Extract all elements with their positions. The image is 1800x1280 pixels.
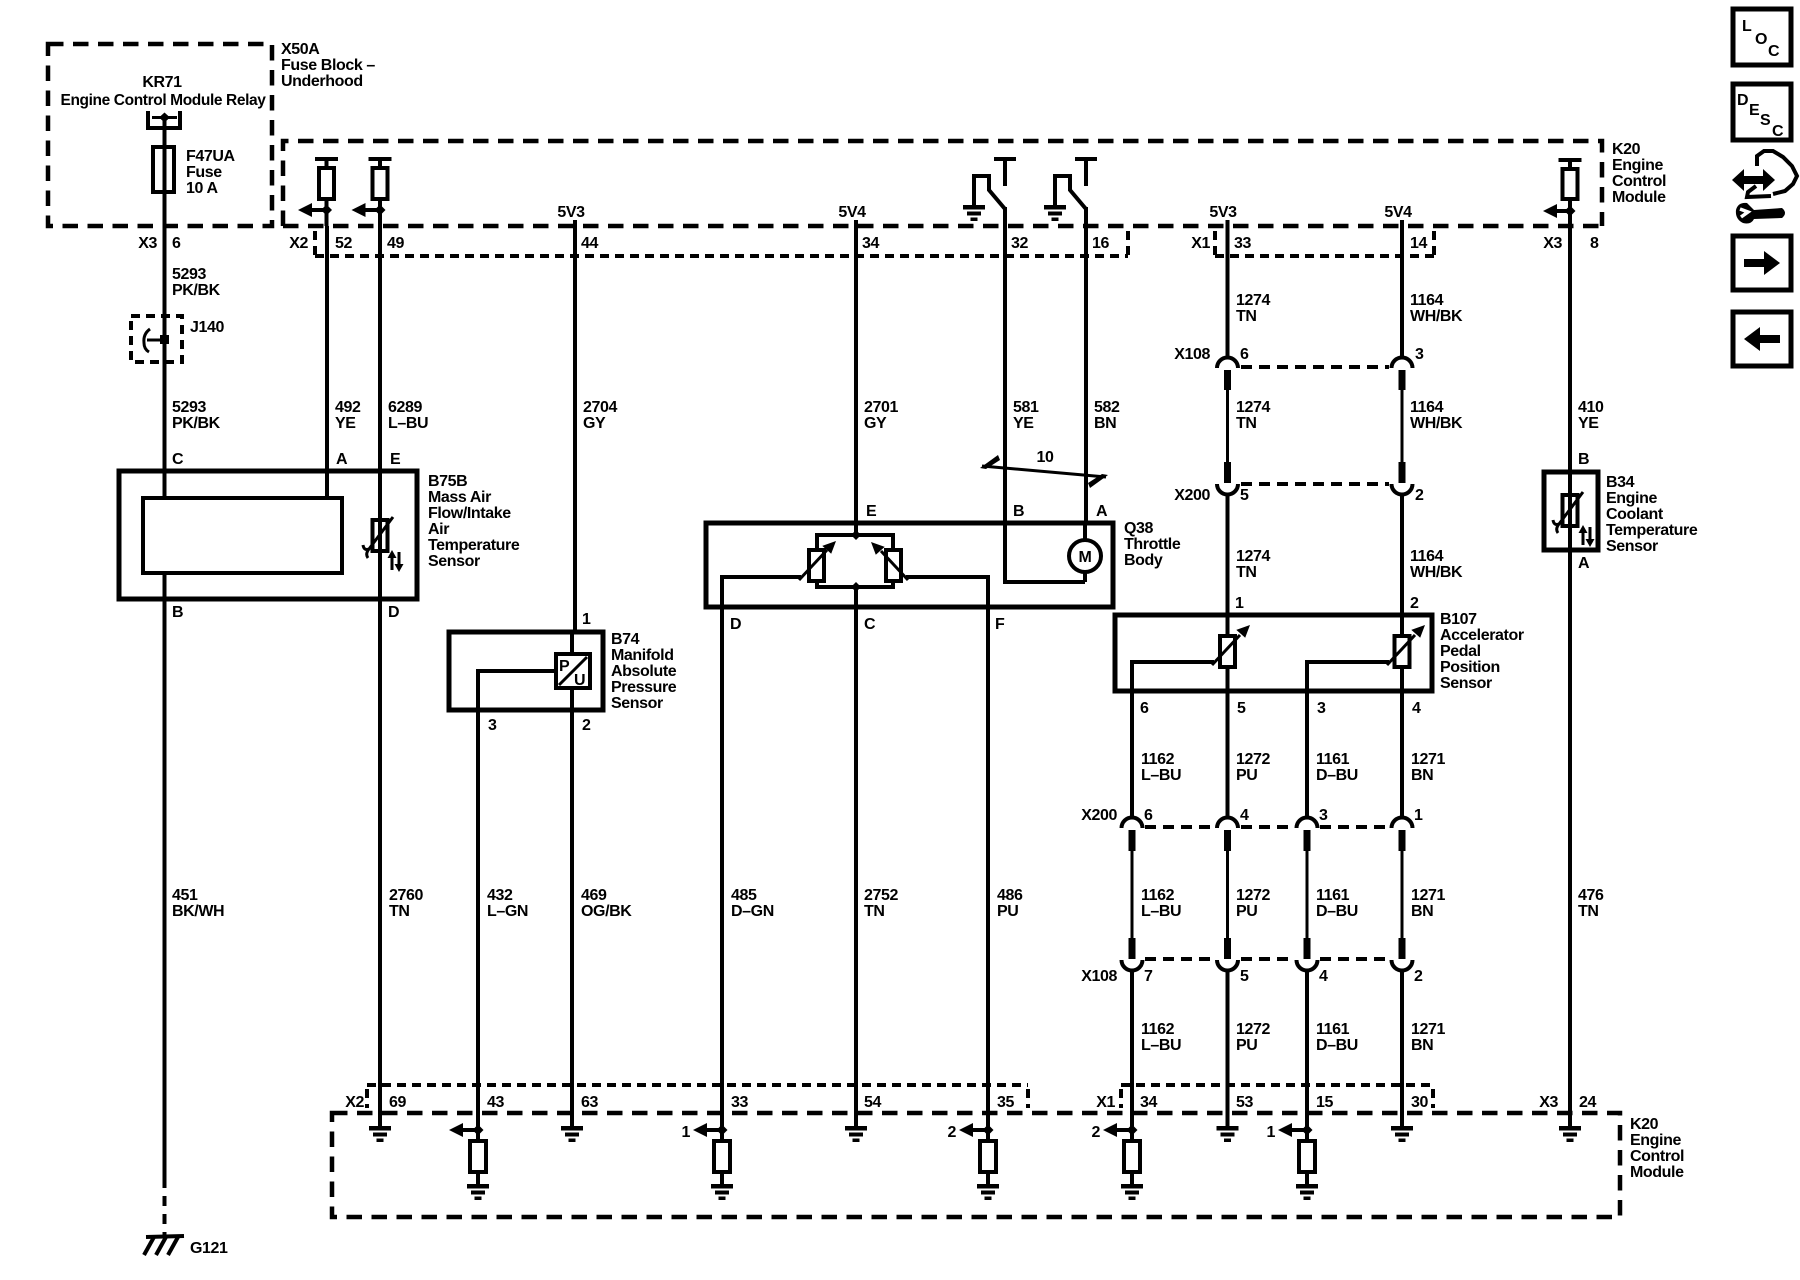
svg-text:L–BU: L–BU	[388, 415, 428, 432]
connector X108 pin 2 (lower)	[1392, 938, 1413, 1085]
svg-text:OG/BK: OG/BK	[581, 903, 632, 920]
svg-text:Fuse: Fuse	[186, 164, 222, 181]
svg-text:3: 3	[488, 717, 497, 734]
svg-text:Engine: Engine	[1606, 490, 1657, 507]
motor M	[1069, 523, 1101, 582]
wire 1271 BN (X200 to X108)	[1411, 887, 1445, 920]
svg-text:BN: BN	[1411, 1037, 1433, 1054]
TPS1 resistor	[809, 550, 824, 581]
svg-text:5V4: 5V4	[838, 204, 866, 221]
ECM ground pin 54	[845, 1085, 867, 1142]
svg-text:X2: X2	[289, 235, 308, 252]
svg-text:10: 10	[1037, 449, 1054, 466]
svg-text:D–BU: D–BU	[1316, 1037, 1358, 1054]
svg-text:A: A	[336, 451, 348, 468]
wire 1162 L-BU (X108 to pin 34)	[1141, 1021, 1181, 1054]
svg-text:32: 32	[1011, 235, 1028, 252]
svg-text:581: 581	[1013, 399, 1039, 416]
connector X200 row labels (upper)	[1174, 487, 1424, 504]
svg-text:E: E	[390, 451, 401, 468]
svg-text:Fuse Block –: Fuse Block –	[281, 57, 375, 74]
svg-text:4: 4	[1412, 700, 1421, 717]
svg-text:476: 476	[1578, 887, 1604, 904]
wire 1274 TN (X108 to X200)	[1236, 399, 1270, 432]
connector X108 pin 3 (upper)	[1392, 358, 1413, 463]
svg-text:GY: GY	[583, 415, 606, 432]
svg-text:2760: 2760	[389, 887, 423, 904]
wire 486 PU (F to pin 35)	[988, 607, 1023, 1085]
B107 pin labels below	[1140, 700, 1421, 717]
connector X200 pin 2 (upper)	[1392, 462, 1413, 615]
wire 1161 D-BU (X108 to pin 15)	[1316, 1021, 1358, 1054]
top connector X2 dotted strip	[315, 231, 1128, 256]
svg-text:BN: BN	[1411, 767, 1433, 784]
svg-text:D: D	[388, 604, 399, 621]
connector X108 pin 6 (upper)	[1217, 358, 1238, 463]
svg-text:C: C	[1772, 123, 1784, 140]
wire A into inner element	[325, 471, 329, 498]
svg-text:X50A: X50A	[281, 41, 320, 58]
svg-text:X108: X108	[1081, 968, 1117, 985]
svg-text:1164: 1164	[1410, 399, 1444, 416]
svg-text:1161: 1161	[1316, 887, 1350, 904]
nav icon DESC	[1733, 84, 1791, 140]
svg-text:Absolute: Absolute	[611, 663, 677, 680]
node 5V4 (pin 34)	[838, 204, 866, 226]
svg-text:L–BU: L–BU	[1141, 767, 1181, 784]
svg-text:Body: Body	[1124, 552, 1163, 569]
ECM pulldown pin 34	[1092, 1085, 1144, 1200]
svg-text:8: 8	[1590, 235, 1599, 252]
motor circuit B wire	[1005, 523, 1085, 582]
svg-text:451: 451	[172, 887, 198, 904]
inline dashes X108 upper	[1241, 365, 1389, 369]
svg-text:469: 469	[581, 887, 607, 904]
svg-text:1162: 1162	[1141, 751, 1175, 768]
svg-text:34: 34	[862, 235, 879, 252]
TPS2 wiper from F	[871, 542, 988, 607]
ground G121	[144, 1236, 228, 1257]
TPS bracket top (E)	[817, 523, 893, 550]
svg-text:Sensor: Sensor	[1606, 538, 1658, 555]
ECM internal resistor pin X3-8	[1543, 160, 1582, 226]
svg-text:4: 4	[1240, 807, 1249, 824]
ECM pulldown pin 15	[1267, 1085, 1319, 1200]
svg-text:PK/BK: PK/BK	[172, 415, 221, 432]
svg-text:52: 52	[335, 235, 352, 252]
ECM ground pin 69	[369, 1085, 391, 1142]
harness loop 10 arrow	[980, 449, 1108, 488]
wire 1164 WH/BK (X108 to X200)	[1410, 399, 1463, 432]
wire 581 YE (32 to Q38 B)	[1005, 226, 1039, 523]
node 5V3 (pin 33)	[1209, 204, 1237, 226]
node 5V3 (pin 44)	[557, 204, 585, 226]
svg-text:6: 6	[172, 235, 181, 252]
ECM K20 top dashed box	[283, 141, 1666, 226]
connector X200 pin 3 (lower)	[1297, 818, 1318, 938]
svg-text:485: 485	[731, 887, 757, 904]
sensor B74 MAP box	[449, 631, 677, 712]
svg-text:49: 49	[387, 235, 404, 252]
svg-text:BN: BN	[1094, 415, 1116, 432]
svg-text:2: 2	[1415, 487, 1424, 504]
svg-text:5: 5	[1237, 700, 1246, 717]
splice J140	[131, 316, 224, 362]
svg-text:Control: Control	[1630, 1148, 1684, 1165]
svg-text:L–BU: L–BU	[1141, 1037, 1181, 1054]
svg-text:E: E	[866, 503, 877, 520]
svg-text:63: 63	[581, 1094, 598, 1111]
svg-text:Engine: Engine	[1612, 157, 1663, 174]
svg-text:Throttle: Throttle	[1124, 536, 1181, 553]
svg-text:53: 53	[1236, 1094, 1253, 1111]
svg-text:X3: X3	[1543, 235, 1562, 252]
TPS bracket bottom (C)	[817, 581, 893, 607]
svg-text:1: 1	[1414, 807, 1423, 824]
svg-text:1: 1	[1235, 595, 1244, 612]
wire 2704 GY (44 to B74 1)	[575, 226, 617, 632]
svg-text:1274: 1274	[1236, 548, 1270, 565]
ECM K20 bottom dashed box	[332, 1113, 1684, 1217]
wire C into inner element	[163, 471, 167, 498]
svg-text:WH/BK: WH/BK	[1410, 308, 1463, 325]
connector X108 pin 4 (lower)	[1297, 938, 1318, 1085]
wire 432 L-GN (3 to pin 43)	[478, 710, 528, 1085]
svg-text:Temperature: Temperature	[428, 537, 520, 554]
svg-text:2: 2	[1410, 595, 1419, 612]
ECM pulldown pin 35	[948, 1085, 1000, 1200]
wire 485 D-GN (D to pin 33)	[722, 607, 774, 1085]
svg-text:5V3: 5V3	[1209, 204, 1237, 221]
top connector pin row labels	[289, 235, 1599, 252]
bottom pin row labels	[345, 1094, 1596, 1111]
svg-text:K20: K20	[1612, 141, 1641, 158]
svg-text:16: 16	[1092, 235, 1109, 252]
svg-text:1: 1	[582, 611, 591, 628]
wire 1272 PU (X200 to X108)	[1236, 887, 1270, 920]
svg-text:L: L	[1742, 18, 1752, 35]
bottom connector X1 dotted strip	[1121, 1085, 1433, 1108]
svg-text:TN: TN	[389, 903, 410, 920]
svg-text:KR71: KR71	[142, 74, 182, 91]
inline dashes X200 lower a	[1145, 825, 1214, 829]
svg-text:D–GN: D–GN	[731, 903, 774, 920]
svg-text:X1: X1	[1191, 235, 1210, 252]
wire 5293 PK/BK upper	[165, 192, 221, 316]
svg-text:Flow/Intake: Flow/Intake	[428, 505, 511, 522]
APP1 wiper from pin 6	[1132, 625, 1250, 691]
svg-text:1: 1	[1267, 1124, 1276, 1141]
svg-text:L–BU: L–BU	[1141, 903, 1181, 920]
svg-text:410: 410	[1578, 399, 1604, 416]
svg-text:PK/BK: PK/BK	[172, 282, 221, 299]
svg-text:WH/BK: WH/BK	[1410, 415, 1463, 432]
svg-text:5V4: 5V4	[1384, 204, 1412, 221]
connector X108 pin 7 (lower)	[1122, 938, 1143, 1085]
svg-text:X1: X1	[1096, 1094, 1115, 1111]
svg-text:1161: 1161	[1316, 751, 1350, 768]
inline dashes X200 lower c	[1320, 825, 1389, 829]
svg-text:O: O	[1755, 31, 1767, 48]
bottom connector X2 dotted strip	[367, 1085, 1028, 1108]
svg-text:Manifold: Manifold	[611, 647, 674, 664]
wire 451 BK/WH (B to G121)	[165, 599, 225, 1236]
throttle body Q38 box	[706, 520, 1181, 607]
svg-text:B34: B34	[1606, 474, 1635, 491]
svg-text:Pressure: Pressure	[611, 679, 677, 696]
wire 469 OG/BK (2 to pin 63)	[572, 710, 632, 1085]
svg-text:69: 69	[389, 1094, 406, 1111]
connector X200 pin 1 (lower)	[1392, 818, 1413, 938]
APP1 resistor	[1220, 615, 1235, 691]
svg-text:30: 30	[1411, 1094, 1428, 1111]
svg-text:Module: Module	[1630, 1164, 1684, 1181]
svg-text:15: 15	[1316, 1094, 1333, 1111]
svg-text:Control: Control	[1612, 173, 1666, 190]
APP2 resistor	[1395, 615, 1410, 691]
svg-text:Mass Air: Mass Air	[428, 489, 491, 506]
svg-text:PU: PU	[1236, 903, 1257, 920]
TPS1 wiper from D	[722, 541, 836, 607]
svg-text:2701: 2701	[864, 399, 898, 416]
svg-text:X108: X108	[1174, 346, 1210, 363]
svg-text:2: 2	[1414, 968, 1423, 985]
wire 1164 WH/BK (14 to X108)	[1402, 226, 1463, 358]
svg-text:1164: 1164	[1410, 292, 1444, 309]
connector X200 pin 6 (lower)	[1122, 818, 1143, 938]
svg-text:5V3: 5V3	[557, 204, 585, 221]
svg-text:L–GN: L–GN	[487, 903, 528, 920]
svg-text:A: A	[1096, 503, 1108, 520]
wire 582 BN (16 to Q38 A)	[1086, 226, 1120, 523]
svg-text:K20: K20	[1630, 1116, 1659, 1133]
ECM ground pin 24	[1559, 1085, 1581, 1142]
ECM internal driver pin 16	[1044, 159, 1097, 226]
wire 476 TN (A to pin 24)	[1570, 550, 1604, 1085]
svg-text:X200: X200	[1174, 487, 1210, 504]
inline dashes X108 lower a	[1145, 957, 1214, 961]
thermistor in B75B	[363, 517, 404, 572]
svg-text:14: 14	[1410, 235, 1427, 252]
svg-text:D: D	[730, 616, 741, 633]
connector X108 row labels (lower)	[1081, 968, 1423, 985]
svg-text:1271: 1271	[1411, 751, 1445, 768]
svg-text:TN: TN	[1236, 308, 1257, 325]
wire E through IAT	[378, 471, 382, 599]
svg-text:PU: PU	[1236, 767, 1257, 784]
wire 492 YE (52 to B75B A)	[327, 226, 361, 471]
ECM internal resistor pin 52	[298, 159, 338, 226]
svg-text:1274: 1274	[1236, 292, 1270, 309]
svg-text:2: 2	[1092, 1124, 1101, 1141]
svg-text:Position: Position	[1440, 659, 1500, 676]
relay KR71	[61, 74, 266, 128]
svg-text:1272: 1272	[1236, 1021, 1270, 1038]
svg-text:1271: 1271	[1411, 1021, 1445, 1038]
P/U symbol	[556, 632, 590, 689]
svg-text:G121: G121	[190, 1240, 228, 1257]
svg-text:43: 43	[487, 1094, 504, 1111]
svg-text:Air: Air	[428, 521, 449, 538]
connector X200 pin 4 (lower)	[1217, 818, 1238, 938]
svg-text:F47UA: F47UA	[186, 148, 236, 165]
node 5V4 (pin 14)	[1384, 204, 1412, 226]
svg-text:F: F	[995, 616, 1005, 633]
ECM internal resistor pin 49	[352, 159, 392, 226]
ECM ground pin 30	[1391, 1085, 1413, 1142]
nav icon LOC	[1733, 9, 1791, 65]
svg-text:A: A	[1578, 555, 1590, 572]
svg-text:33: 33	[731, 1094, 748, 1111]
svg-text:Engine Control Module Relay: Engine Control Module Relay	[61, 92, 266, 109]
TPS2 resistor	[886, 550, 901, 581]
svg-text:2704: 2704	[583, 399, 617, 416]
svg-text:M: M	[1079, 549, 1092, 566]
svg-text:X3: X3	[138, 235, 157, 252]
svg-text:Sensor: Sensor	[428, 553, 480, 570]
svg-text:1162: 1162	[1141, 1021, 1175, 1038]
svg-text:3: 3	[1415, 346, 1424, 363]
svg-text:Sensor: Sensor	[1440, 675, 1492, 692]
svg-text:492: 492	[335, 399, 361, 416]
wire 1162 L-BU (X200 to X108)	[1141, 887, 1181, 920]
svg-text:44: 44	[581, 235, 598, 252]
wire 6289 L-BU (49 to B75B E)	[380, 226, 428, 471]
svg-text:YE: YE	[1013, 415, 1034, 432]
sensor B107 APP box	[1115, 611, 1524, 692]
inline dashes X108 lower c	[1320, 957, 1389, 961]
svg-text:D: D	[1737, 92, 1748, 109]
inline dashes X200 upper	[1241, 482, 1389, 486]
svg-text:Q38: Q38	[1124, 520, 1154, 537]
svg-text:Temperature: Temperature	[1606, 522, 1698, 539]
wire 2760 TN (D to pin 69)	[380, 599, 423, 1085]
wire 1272 PU (5 to X200)	[1228, 691, 1271, 817]
label X50A Fuse Block - Underhood	[281, 41, 375, 90]
svg-text:BK/WH: BK/WH	[172, 903, 224, 920]
connector X108 row labels (upper)	[1174, 346, 1424, 363]
svg-text:PU: PU	[997, 903, 1018, 920]
svg-text:U: U	[574, 672, 585, 689]
svg-text:2: 2	[582, 717, 591, 734]
svg-text:2: 2	[948, 1124, 957, 1141]
svg-text:E: E	[1749, 102, 1760, 119]
svg-text:582: 582	[1094, 399, 1120, 416]
connector X200 pin 5 (upper)	[1217, 462, 1238, 615]
svg-text:X3: X3	[1539, 1094, 1558, 1111]
svg-text:5293: 5293	[172, 399, 206, 416]
fuse block X50A dashed box	[48, 44, 272, 226]
svg-text:D–BU: D–BU	[1316, 767, 1358, 784]
svg-text:S: S	[1760, 112, 1771, 129]
sensor B34 ECT box	[1544, 472, 1698, 555]
svg-text:7: 7	[1144, 968, 1153, 985]
svg-text:C: C	[172, 451, 184, 468]
svg-text:54: 54	[864, 1094, 881, 1111]
connector X108 pin 5 (lower)	[1217, 938, 1238, 1085]
svg-text:Module: Module	[1612, 189, 1666, 206]
Q38 pin letters below	[730, 616, 1005, 633]
svg-text:432: 432	[487, 887, 513, 904]
svg-text:4: 4	[1319, 968, 1328, 985]
svg-text:3: 3	[1317, 700, 1326, 717]
wire 1271 BN (X108 to pin 30)	[1411, 1021, 1445, 1054]
nav icon forward	[1733, 236, 1791, 290]
wire 1271 BN (4 to X200)	[1402, 691, 1445, 817]
svg-text:B: B	[172, 604, 183, 621]
svg-text:YE: YE	[1578, 415, 1599, 432]
wire B74 pin 3	[478, 671, 556, 734]
wire 2752 TN (C to pin 54)	[856, 607, 898, 1085]
svg-text:Engine: Engine	[1630, 1132, 1681, 1149]
svg-text:6: 6	[1240, 346, 1249, 363]
svg-text:1: 1	[682, 1124, 691, 1141]
ECM internal driver pin 32	[963, 159, 1016, 226]
ECM pulldown pin 33	[682, 1085, 734, 1200]
svg-text:GY: GY	[864, 415, 887, 432]
wire B out of inner element	[165, 573, 184, 621]
svg-text:6289: 6289	[388, 399, 422, 416]
svg-text:Pedal: Pedal	[1440, 643, 1481, 660]
wire 1164 WH/BK (X200 to B107 2)	[1410, 548, 1463, 612]
thermistor in B34	[1553, 472, 1595, 550]
svg-text:J140: J140	[190, 319, 224, 336]
svg-text:C: C	[1768, 43, 1780, 60]
sensor B75B MAF/IAT box	[119, 471, 520, 599]
wire 1162 L-BU (6 to X200)	[1132, 691, 1181, 817]
connector X200 row labels (lower)	[1081, 807, 1423, 824]
svg-text:PU: PU	[1236, 1037, 1257, 1054]
wire 5293 PK/BK lower	[165, 362, 221, 471]
svg-text:Underhood: Underhood	[281, 73, 363, 90]
svg-text:WH/BK: WH/BK	[1410, 564, 1463, 581]
wire 2701 GY (34 to Q38 E)	[856, 226, 898, 523]
svg-text:B75B: B75B	[428, 473, 467, 490]
svg-text:P: P	[559, 658, 570, 675]
ECM ground pin 53	[1217, 1085, 1239, 1142]
wire 1274 TN (X200 to B107 1)	[1235, 548, 1270, 612]
svg-text:3: 3	[1319, 807, 1328, 824]
wire 1161 D-BU (X200 to X108)	[1316, 887, 1358, 920]
svg-text:B: B	[1578, 451, 1589, 468]
svg-text:1164: 1164	[1410, 548, 1444, 565]
wire 1272 PU (X108 to pin 53)	[1236, 1021, 1270, 1054]
wire 410 YE (X3-8 to B34 B)	[1570, 226, 1604, 472]
svg-text:1272: 1272	[1236, 887, 1270, 904]
svg-text:1271: 1271	[1411, 887, 1445, 904]
svg-text:6: 6	[1144, 807, 1153, 824]
fuse F47UA	[153, 147, 236, 197]
top connector X1 dotted strip	[1215, 231, 1434, 256]
ECM pulldown pin 43	[449, 1085, 489, 1200]
svg-text:YE: YE	[335, 415, 356, 432]
svg-text:TN: TN	[1236, 415, 1257, 432]
svg-text:TN: TN	[1578, 903, 1599, 920]
svg-text:1162: 1162	[1141, 887, 1175, 904]
wire 1274 TN (33 to X108)	[1228, 226, 1271, 358]
svg-text:B74: B74	[611, 631, 640, 648]
svg-text:Accelerator: Accelerator	[1440, 627, 1524, 644]
svg-text:TN: TN	[1236, 564, 1257, 581]
nav icon wrench/flow	[1732, 151, 1797, 224]
svg-text:X2: X2	[345, 1094, 364, 1111]
svg-text:D–BU: D–BU	[1316, 903, 1358, 920]
svg-text:1161: 1161	[1316, 1021, 1350, 1038]
svg-text:33: 33	[1234, 235, 1251, 252]
APP2 wiper from pin 3	[1307, 625, 1425, 691]
svg-text:35: 35	[997, 1094, 1014, 1111]
svg-text:24: 24	[1579, 1094, 1596, 1111]
